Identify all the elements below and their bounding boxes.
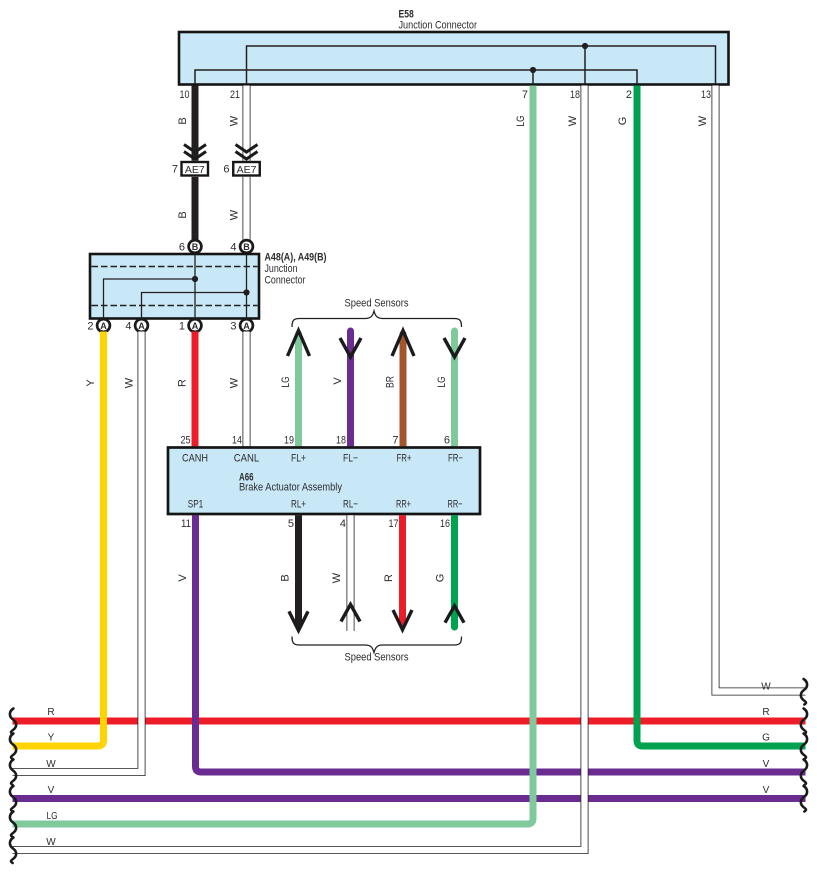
svg-text:W: W [331,572,343,583]
svg-text:FL−: FL− [343,453,358,465]
svg-text:G: G [435,574,447,583]
svg-text:Brake Actuator Assembly: Brake Actuator Assembly [239,482,342,494]
svg-text:G: G [762,733,770,744]
A48 dashed separator lower [92,305,258,307]
chevron arrow down RR+ [393,610,412,630]
A48 dashed separator upper [92,266,258,268]
svg-text:4: 4 [125,321,131,333]
svg-text:R: R [762,707,769,718]
svg-text:V: V [763,785,770,796]
wire break squiggle left Y [10,734,16,760]
wire break squiggle left W2 [10,838,16,864]
svg-text:W: W [697,115,709,126]
wire break squiggle right V1 [801,760,807,786]
svg-text:W: W [229,209,241,220]
svg-text:1: 1 [179,321,185,333]
svg-text:RR−: RR− [448,499,463,511]
wire W from E58 pin 21 to AE7 [243,86,251,161]
E58 internal bus wire (pins 10-7-2) [195,70,637,84]
svg-text:4: 4 [230,242,236,254]
speed sensors brace bottom [292,637,462,653]
svg-text:Speed Sensors: Speed Sensors [345,298,409,310]
wire LG from E58 pin 7 to left edge [13,86,534,825]
svg-text:W: W [761,682,771,693]
svg-text:16: 16 [440,518,450,530]
A48 internal wire B6 to A1 [194,254,196,319]
wire BR speed sensor FR+ [400,331,407,447]
svg-text:6: 6 [223,164,229,176]
svg-text:7: 7 [392,435,398,447]
svg-text:19: 19 [284,435,294,447]
connector AE7 pin 6 [223,162,259,176]
chevron arrow down RL+ [289,611,308,630]
A48 pin B6 terminal circle [179,240,202,253]
wire break squiggle right G [801,734,807,760]
wire V from A66 SP1 pin 11 to right edge [196,515,806,772]
svg-text:18: 18 [336,435,346,447]
wire break squiggle right W [801,679,807,705]
svg-text:V: V [763,759,770,770]
wire G speed sensor RR- [451,515,458,630]
chevron arrow up FL+ [288,331,310,357]
wire break squiggle right R [801,709,807,735]
svg-text:17: 17 [389,518,399,530]
E58 pin numbers [180,89,712,101]
wire R speed sensor RR+ [399,515,406,622]
svg-text:A: A [138,321,145,331]
wire B from AE7 to A48 pin B6 [192,177,199,240]
svg-text:V: V [332,377,344,385]
svg-text:11: 11 [181,518,191,530]
wire Y from A48 pin A2 to left edge [13,332,104,747]
svg-text:FR+: FR+ [397,453,412,465]
A66 pin numbers bottom [181,518,450,530]
svg-text:LG: LG [47,811,58,822]
svg-text:Y: Y [48,733,55,744]
chevron arrow down FL- [340,338,361,357]
svg-text:RL−: RL− [343,499,358,511]
svg-text:FL+: FL+ [291,453,306,465]
speed sensors brace top [292,311,462,327]
node junction dot on bus at pin 7 [530,67,536,84]
A48 label [265,252,327,287]
wire LG speed sensor FR- [451,328,458,447]
svg-text:Junction Connector: Junction Connector [399,20,478,32]
svg-text:13: 13 [701,89,711,101]
wire break squiggle left W [10,760,16,786]
svg-text:2: 2 [626,89,632,101]
svg-text:14: 14 [232,435,242,447]
double chevron arrow into AE7 (B wire) [184,145,206,160]
horizontal wire R (red bus row) [13,718,806,725]
svg-text:5: 5 [288,518,294,530]
wire LG speed sensor FL+ [295,331,302,447]
svg-text:2: 2 [87,321,93,333]
svg-text:25: 25 [181,435,191,447]
svg-text:W: W [46,759,56,770]
svg-text:CANH: CANH [182,453,208,465]
bus row labels right [761,682,771,797]
svg-text:W: W [229,115,241,126]
svg-text:CANL: CANL [234,453,260,465]
wire break squiggle left V [10,786,16,812]
svg-text:W: W [567,115,579,126]
svg-text:AE7: AE7 [185,164,205,176]
svg-text:Junction: Junction [265,263,298,275]
svg-text:3: 3 [230,321,236,333]
svg-text:G: G [617,117,629,126]
wire W from A48 pin A4 to left edge [13,332,142,773]
svg-text:18: 18 [570,89,580,101]
wire R from A48 pin A1 to A66 CANH [192,332,199,447]
svg-text:W: W [229,377,241,388]
chevron arrow up RL- [341,604,360,621]
A66 top pin labels [182,453,463,465]
A48 pin B4 terminal circle [230,240,253,253]
wire B speed sensor RL+ [295,515,302,626]
double chevron arrow into AE7 (W wire) [236,145,258,160]
svg-text:A: A [192,321,199,331]
chevron arrow up RR- [445,606,464,623]
svg-text:4: 4 [340,518,346,530]
svg-text:W: W [124,377,136,388]
wire break squiggle left LG [10,812,16,838]
svg-text:V: V [177,574,189,582]
svg-text:RR+: RR+ [396,499,411,511]
horizontal wire V (violet bus row) [13,795,806,802]
wire V speed sensor FL- [347,328,354,447]
A48 pin A4 terminal circle [125,319,148,332]
A48 internal wire B4 to A3 [246,254,248,319]
A66 bottom pin labels [188,499,463,511]
svg-text:B: B [177,117,189,124]
svg-text:6: 6 [179,242,185,254]
svg-text:A: A [100,321,107,331]
svg-text:6: 6 [444,435,450,447]
brake actuator assembly A66 box [168,448,480,515]
svg-text:LG: LG [436,377,448,388]
svg-text:21: 21 [230,89,240,101]
svg-text:V: V [48,785,55,796]
svg-text:Speed Sensors: Speed Sensors [345,652,409,664]
svg-text:R: R [177,379,189,387]
connector AE7 pin 7 [172,162,208,176]
chevron arrow up FR+ [392,331,414,357]
svg-text:Y: Y [85,379,97,387]
wire break squiggle right V2 [801,786,807,812]
svg-text:B: B [280,574,292,581]
E58 label [399,9,478,32]
A48 internal wire branch to A4 with junction dot [142,289,250,318]
svg-text:A48(A), A49(B): A48(A), A49(B) [265,252,327,264]
wire W from A48 pin A3 to A66 CANL [243,332,251,447]
wire W from AE7 to A48 pin B4 [243,177,251,240]
svg-text:7: 7 [172,164,178,176]
A48 pin A2 terminal circle [87,319,110,332]
svg-text:10: 10 [180,89,190,101]
node junction dot on bus at pin 18 [582,43,588,84]
junction connector E58 box [179,32,729,85]
svg-text:W: W [46,837,56,848]
svg-text:B: B [243,242,250,252]
svg-text:R: R [47,707,54,718]
wire W from E58 pin 18 to left edge [13,86,585,851]
svg-text:AE7: AE7 [237,164,257,176]
wire G from E58 pin 2 to right edge [637,86,806,747]
svg-text:BR: BR [385,376,397,388]
svg-text:B: B [177,211,189,218]
wire break squiggle left R [10,709,16,735]
svg-text:LG: LG [280,377,292,388]
svg-text:7: 7 [522,89,528,101]
wire B from E58 pin 10 to AE7 [192,86,199,161]
svg-text:RL+: RL+ [291,499,306,511]
svg-text:Connector: Connector [265,275,306,287]
bus row labels left [46,707,57,848]
wire W from E58 pin 13 to right edge [716,86,806,692]
svg-text:R: R [383,574,395,582]
svg-text:B: B [192,242,199,252]
junction connector A48(A) A49(B) box [90,254,259,319]
A48 pin A1 terminal circle [179,319,202,332]
A66 pin numbers top [181,435,451,447]
E58 internal bus wire (pins 21-18-13) [247,46,716,84]
chevron arrow down FR- [444,338,465,357]
svg-text:SP1: SP1 [188,499,204,511]
A48 internal wire branch to A2 with junction dot [104,276,199,319]
svg-text:A: A [243,321,250,331]
A48 pin A3 terminal circle [230,319,253,332]
wire W speed sensor RL- [347,515,355,631]
svg-text:FR−: FR− [448,453,463,465]
svg-text:LG: LG [515,116,527,127]
A66 label [239,472,342,494]
